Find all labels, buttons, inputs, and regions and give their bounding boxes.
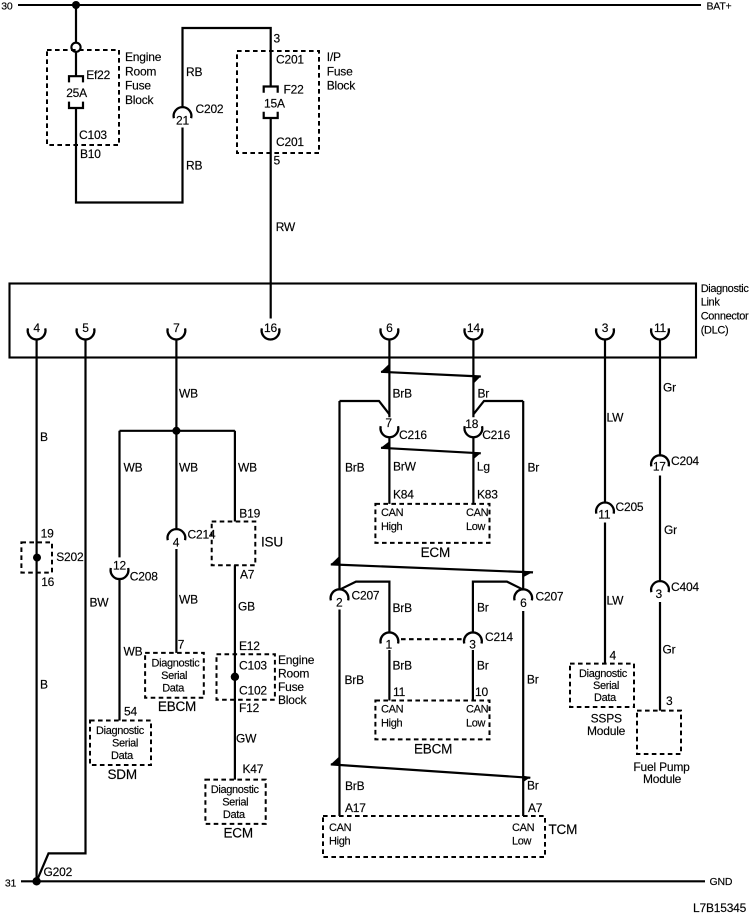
svg-text:High: High <box>381 521 402 533</box>
svg-text:BW: BW <box>90 596 110 610</box>
svg-text:Br: Br <box>528 460 540 474</box>
svg-text:RB: RB <box>186 159 202 173</box>
svg-text:Ef22: Ef22 <box>86 68 110 82</box>
svg-text:RW: RW <box>276 220 296 234</box>
svg-text:Low: Low <box>512 836 532 848</box>
svg-text:25A: 25A <box>66 86 87 100</box>
svg-text:Diagnostic: Diagnostic <box>96 725 145 737</box>
svg-text:WB: WB <box>238 461 257 475</box>
connector C214 pin 3 <box>464 632 482 643</box>
svg-text:WB: WB <box>179 387 198 401</box>
svg-text:7: 7 <box>385 416 392 430</box>
svg-text:F12: F12 <box>239 701 260 715</box>
svg-text:Module: Module <box>587 724 626 738</box>
wire DLC pin 6 to C216 pin 7 (BrB) <box>388 340 390 418</box>
svg-text:BrB: BrB <box>345 779 365 793</box>
svg-text:WB: WB <box>124 645 143 659</box>
svg-text:E12: E12 <box>239 639 260 653</box>
wire circle to fuse Ef22 <box>75 52 77 76</box>
svg-text:BrB: BrB <box>345 460 365 474</box>
svg-text:Fuse: Fuse <box>327 64 353 78</box>
wire C207 pin2 branch to C214 pin 1 <box>340 582 390 633</box>
svg-text:14: 14 <box>467 321 480 335</box>
wire C214 pin4 to EBCM <box>175 549 177 653</box>
svg-text:6: 6 <box>386 321 393 335</box>
svg-text:Data: Data <box>162 683 185 695</box>
svg-text:GB: GB <box>238 600 255 614</box>
svg-text:4: 4 <box>33 321 40 335</box>
wire DLC pin 11 to C204 (Gr) <box>659 340 661 456</box>
wire fuse Ef22 to C202 branch <box>76 108 183 203</box>
svg-text:Room: Room <box>278 667 309 681</box>
wire C216 pin18 to ECM K83 (Lg) <box>472 437 474 504</box>
svg-text:LW: LW <box>607 410 625 424</box>
svg-text:3: 3 <box>602 321 609 335</box>
svg-text:I/P: I/P <box>327 50 341 64</box>
svg-text:LW: LW <box>607 593 625 607</box>
wire C216 pin7 to ECM K84 (BrW) <box>388 437 390 504</box>
SDM Diagnostic Serial Data dashed box <box>90 721 151 766</box>
svg-text:C216: C216 <box>482 428 510 442</box>
svg-text:B: B <box>40 430 48 444</box>
module Fuel Pump dashed box <box>637 711 681 754</box>
wire junction bus horizontal <box>120 430 235 432</box>
svg-text:ECM: ECM <box>224 825 253 840</box>
svg-text:BAT+: BAT+ <box>707 0 732 12</box>
I/P Fuse Block dashed box <box>237 51 319 153</box>
svg-text:Serial: Serial <box>222 797 248 809</box>
twisted pair crossover 4 <box>331 764 531 777</box>
svg-text:C216: C216 <box>399 428 427 442</box>
svg-text:C207: C207 <box>536 589 564 603</box>
svg-text:C201: C201 <box>276 135 304 149</box>
svg-text:1: 1 <box>386 637 393 651</box>
wire from BAT+ rail to Engine Room Fuse Block <box>75 5 77 43</box>
svg-text:31: 31 <box>5 878 17 890</box>
svg-text:RB: RB <box>186 65 202 79</box>
svg-text:17: 17 <box>653 459 666 473</box>
wire 30/BAT+ power rail <box>18 4 701 6</box>
svg-text:Block: Block <box>327 79 357 93</box>
svg-text:High: High <box>381 717 402 729</box>
module ISU dashed box <box>212 522 256 566</box>
svg-text:19: 19 <box>41 526 54 540</box>
connector C205 pin 11 <box>596 503 614 514</box>
svg-text:C102: C102 <box>239 683 267 697</box>
svg-text:Data: Data <box>594 692 617 704</box>
twisted pair crossover 2 <box>381 448 481 454</box>
svg-text:Br: Br <box>478 386 490 400</box>
svg-text:3: 3 <box>666 694 673 708</box>
connector C404 pin 3 <box>651 581 669 592</box>
connector C207 pin 2 <box>331 589 349 600</box>
svg-text:Fuse: Fuse <box>278 680 304 694</box>
svg-text:BrB: BrB <box>345 673 365 687</box>
svg-text:2: 2 <box>336 595 343 609</box>
wire DLC pin 4 to G202 (B) <box>35 340 37 882</box>
svg-text:C404: C404 <box>671 580 699 594</box>
svg-text:CAN: CAN <box>512 822 535 834</box>
connector C214 pin 1 <box>381 632 399 643</box>
wire WB branch middle to C214 <box>175 431 177 529</box>
svg-text:Br: Br <box>477 658 489 672</box>
svg-text:TCM: TCM <box>549 822 578 837</box>
svg-text:C208: C208 <box>130 569 158 583</box>
ground G202 junction <box>32 877 40 885</box>
svg-text:Block: Block <box>125 93 155 107</box>
wire C214 pin3 to EBCM 10 (Br) <box>472 650 474 701</box>
connector C204 pin 17 <box>651 455 669 466</box>
svg-text:Data: Data <box>111 750 134 762</box>
svg-text:WB: WB <box>124 461 143 475</box>
svg-text:GW: GW <box>236 731 257 745</box>
svg-text:12: 12 <box>113 558 126 572</box>
svg-text:GND: GND <box>710 876 733 888</box>
svg-text:EBCM: EBCM <box>158 699 196 714</box>
svg-text:16: 16 <box>41 575 54 589</box>
svg-text:BrB: BrB <box>393 601 413 615</box>
svg-text:Diagnostic: Diagnostic <box>152 657 201 669</box>
SSPS Diagnostic Serial Data dashed box <box>570 664 634 707</box>
svg-text:3: 3 <box>274 32 281 46</box>
svg-text:Diagnostic: Diagnostic <box>579 668 628 680</box>
svg-text:F22: F22 <box>284 82 305 96</box>
wire F22 to DLC pin 16 <box>270 118 272 319</box>
wire DLC pin 7 to junction (WB) <box>175 340 177 431</box>
wire C208 to SDM <box>118 579 120 720</box>
wire C207 pin6 branch to C214 pin 3 <box>473 582 523 633</box>
svg-text:CAN: CAN <box>381 507 404 519</box>
svg-text:6: 6 <box>520 596 527 610</box>
svg-text:Gr: Gr <box>663 642 676 656</box>
svg-text:Low: Low <box>466 521 486 533</box>
svg-text:CAN: CAN <box>329 822 352 834</box>
svg-text:WB: WB <box>179 461 198 475</box>
module ECM CAN dashed box <box>375 504 489 543</box>
svg-text:Engine: Engine <box>125 50 162 64</box>
svg-text:A7: A7 <box>528 801 543 815</box>
svg-text:S202: S202 <box>56 550 84 564</box>
svg-text:C103: C103 <box>239 658 267 672</box>
wire branch left CAN high <box>340 401 390 414</box>
svg-text:16: 16 <box>264 321 277 335</box>
wire branch right CAN low <box>473 401 523 414</box>
svg-text:Serial: Serial <box>161 670 187 682</box>
wire WB branch left to C208 <box>118 431 120 558</box>
svg-text:ECM: ECM <box>421 545 450 560</box>
fuse F22 15A <box>264 87 278 93</box>
junction inside fuse block <box>231 673 239 681</box>
svg-text:G202: G202 <box>44 865 73 879</box>
svg-text:Lg: Lg <box>477 460 490 474</box>
svg-text:Gr: Gr <box>664 523 677 537</box>
svg-text:K47: K47 <box>243 762 264 776</box>
svg-text:18: 18 <box>465 417 478 431</box>
svg-text:Low: Low <box>466 717 486 729</box>
wire DLC pin 14 to C216 pin 18 (Br) <box>472 340 474 418</box>
svg-text:Serial: Serial <box>593 680 619 692</box>
splice S202 junction <box>33 554 41 562</box>
svg-text:11: 11 <box>393 685 406 699</box>
wire C202 to I/P Fuse Block <box>183 28 271 107</box>
wire ISU to Engine Room Fuse Block (GB) <box>234 565 236 654</box>
svg-text:High: High <box>329 836 350 848</box>
svg-text:54: 54 <box>124 705 137 719</box>
wire C207 pin2 to TCM A17 (BrB) <box>338 610 340 817</box>
svg-text:Engine: Engine <box>278 653 315 667</box>
connector C214 pins 1-3 dashed link <box>401 638 462 640</box>
junction on BAT+ rail <box>72 1 80 9</box>
wire CAN high outer branch (BrB) <box>338 401 340 590</box>
connector circle at fuse block entry <box>71 43 80 52</box>
svg-text:4: 4 <box>173 535 180 549</box>
svg-text:7: 7 <box>173 321 180 335</box>
svg-text:21: 21 <box>176 113 189 127</box>
ECM Diagnostic Serial Data dashed box <box>205 780 265 824</box>
svg-text:Module: Module <box>643 772 682 786</box>
svg-text:Br: Br <box>527 673 539 687</box>
wire 31/GND ground rail <box>21 880 705 882</box>
svg-text:CAN: CAN <box>381 704 404 716</box>
wire C404 to Fuel Pump Module (Gr) <box>659 602 661 711</box>
svg-text:Link: Link <box>701 297 721 309</box>
svg-text:10: 10 <box>475 685 488 699</box>
svg-text:BrB: BrB <box>393 659 413 673</box>
svg-text:7: 7 <box>178 638 185 652</box>
svg-text:ISU: ISU <box>261 534 283 549</box>
svg-text:SDM: SDM <box>108 767 137 782</box>
junction on WB bus <box>172 427 180 435</box>
svg-text:B: B <box>40 678 48 692</box>
svg-text:11: 11 <box>598 507 611 521</box>
svg-text:Room: Room <box>125 64 156 78</box>
svg-text:BrB: BrB <box>393 386 413 400</box>
svg-text:(DLC): (DLC) <box>701 325 729 337</box>
svg-text:5: 5 <box>274 154 281 168</box>
svg-text:C207: C207 <box>352 588 380 602</box>
svg-text:Fuse: Fuse <box>125 79 151 93</box>
wire C207 pin6 to TCM A7 (Br) <box>522 611 524 816</box>
wire through fuse block to ECM (GW) <box>234 654 236 779</box>
svg-text:Block: Block <box>278 693 308 707</box>
svg-text:C103: C103 <box>79 128 107 142</box>
connector C214 pin 4 <box>168 529 186 540</box>
svg-text:K84: K84 <box>393 487 414 501</box>
wire WB branch right to ISU <box>234 431 236 522</box>
svg-text:4: 4 <box>610 649 617 663</box>
svg-text:K83: K83 <box>477 487 498 501</box>
svg-text:A17: A17 <box>345 801 366 815</box>
svg-text:B19: B19 <box>239 507 260 521</box>
module TCM dashed box <box>323 816 545 857</box>
svg-text:C214: C214 <box>485 630 513 644</box>
svg-text:C205: C205 <box>616 500 644 514</box>
EBCM Diagnostic Serial Data dashed box <box>145 653 204 698</box>
fuse Ef22 25A <box>69 76 83 82</box>
svg-text:L7B15345: L7B15345 <box>693 901 747 915</box>
svg-text:B10: B10 <box>80 147 101 161</box>
wire C214 pin1 to EBCM 11 (BrB) <box>388 650 390 701</box>
svg-text:EBCM: EBCM <box>414 742 452 757</box>
wire C204 to C404 (Gr) <box>659 476 661 582</box>
svg-text:Diagnostic: Diagnostic <box>701 283 750 295</box>
svg-text:WB: WB <box>179 593 198 607</box>
twisted pair crossover 1 <box>381 372 481 377</box>
module EBCM CAN dashed box <box>375 701 489 740</box>
svg-text:A7: A7 <box>240 568 255 582</box>
svg-text:C202: C202 <box>196 102 224 116</box>
wire C205 to SSPS module <box>604 523 606 664</box>
Diagnostic Link Connector DLC box <box>10 284 697 358</box>
svg-text:Connector: Connector <box>701 311 749 323</box>
connector C207 pin 6 <box>514 589 532 600</box>
Engine Room Fuse Block dashed box <box>47 50 119 145</box>
splice S202 dashed box <box>21 542 52 572</box>
svg-text:CAN: CAN <box>466 507 489 519</box>
svg-text:Serial: Serial <box>112 737 138 749</box>
wire DLC pin 3 to C205 (LW) <box>604 340 606 503</box>
svg-text:3: 3 <box>469 637 476 651</box>
svg-text:Br: Br <box>477 601 489 615</box>
wire CAN low outer branch (Br) <box>522 401 524 590</box>
svg-text:C204: C204 <box>671 454 699 468</box>
svg-text:Gr: Gr <box>663 381 676 395</box>
Engine Room Fuse Block lower dashed box <box>217 654 275 699</box>
svg-text:Data: Data <box>223 809 246 821</box>
svg-text:11: 11 <box>654 321 667 335</box>
wire DLC pin 5 to G202 (BW) <box>37 340 86 882</box>
svg-text:3: 3 <box>656 587 663 601</box>
svg-text:Br: Br <box>527 778 539 792</box>
twisted pair crossover 3 <box>331 564 533 572</box>
svg-text:C201: C201 <box>276 53 304 67</box>
svg-text:CAN: CAN <box>466 704 489 716</box>
svg-text:Diagnostic: Diagnostic <box>211 784 260 796</box>
connector C202 pin 21 <box>174 107 192 118</box>
svg-text:15A: 15A <box>264 97 285 111</box>
svg-text:BrW: BrW <box>393 460 417 474</box>
svg-text:30: 30 <box>1 0 13 12</box>
svg-text:5: 5 <box>82 321 89 335</box>
